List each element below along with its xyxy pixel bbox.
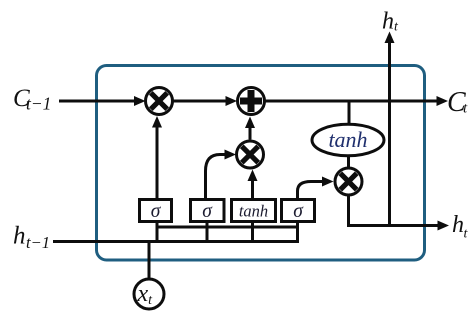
svg-text:tanh: tanh [239,202,268,221]
svg-text:t−1: t−1 [26,94,51,114]
svg-text:t−1: t−1 [26,233,50,252]
svg-text:σ: σ [151,201,162,222]
svg-text:tanh: tanh [328,127,367,152]
svg-text:σ: σ [202,201,213,222]
svg-text:h: h [382,9,394,35]
svg-text:h: h [13,223,26,250]
svg-text:σ: σ [293,201,304,222]
svg-text:h: h [452,212,464,238]
